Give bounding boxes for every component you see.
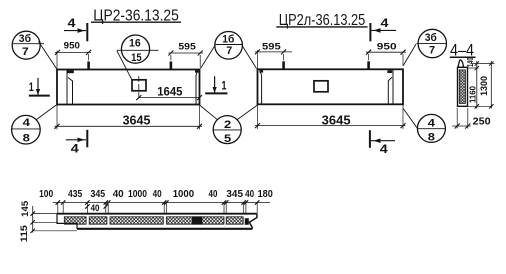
left panel right-end joint lines bbox=[195, 70, 199, 104]
svg-text:3645: 3645 bbox=[322, 114, 351, 128]
left panel left-end joint lines bbox=[67, 70, 74, 105]
svg-text:8: 8 bbox=[428, 132, 435, 144]
callout circle 2/5 bottom-center bbox=[200, 105, 258, 145]
section mark 4 top-right bbox=[370, 16, 396, 41]
right panel lifting loop 2 bbox=[367, 61, 370, 69]
dim 950 right panel bbox=[366, 40, 406, 66]
callout circle 4/8 bottom-left bbox=[12, 105, 57, 145]
bottom bar black joint bbox=[192, 216, 202, 224]
svg-text:2: 2 bbox=[224, 119, 231, 131]
svg-text:1: 1 bbox=[222, 79, 227, 93]
svg-text:40: 40 bbox=[113, 189, 124, 200]
section 4-4 body bbox=[458, 60, 468, 106]
svg-text:5: 5 bbox=[224, 133, 231, 145]
svg-text:40: 40 bbox=[153, 189, 162, 200]
svg-text:345: 345 bbox=[226, 189, 243, 200]
bottom bar hatch strips bbox=[64, 217, 243, 224]
bottom sub dim 40 bbox=[85, 202, 108, 213]
svg-text:1: 1 bbox=[29, 80, 34, 94]
right panel left-end joint lines bbox=[259, 70, 263, 104]
svg-text:950: 950 bbox=[64, 40, 80, 51]
bottom bar outline bbox=[57, 213, 257, 229]
svg-text:4: 4 bbox=[381, 16, 389, 30]
title panel CP2l-36.13.25 bbox=[276, 12, 367, 29]
section mark 1 left bbox=[29, 78, 50, 96]
svg-text:1б: 1б bbox=[222, 34, 234, 46]
bottom dim labels row bbox=[39, 189, 273, 200]
svg-text:1160: 1160 bbox=[467, 86, 477, 103]
svg-text:8: 8 bbox=[23, 133, 30, 145]
svg-text:7: 7 bbox=[226, 45, 232, 57]
title panel CP2-36.13.25 bbox=[91, 7, 181, 24]
svg-text:435: 435 bbox=[68, 189, 82, 200]
callout circle 1b/7 bbox=[201, 32, 257, 69]
right panel right-end joint lines bbox=[387, 69, 393, 104]
section mark 4 bottom-right bbox=[370, 130, 395, 156]
svg-text:250: 250 bbox=[473, 117, 491, 128]
left panel outline bbox=[57, 70, 200, 105]
callout circle 3b/7 top-left bbox=[12, 31, 56, 68]
svg-text:4: 4 bbox=[380, 142, 388, 156]
section mark 1 right bbox=[205, 76, 227, 93]
svg-text:1000: 1000 bbox=[128, 189, 147, 200]
svg-text:100: 100 bbox=[39, 189, 53, 200]
svg-text:595: 595 bbox=[262, 40, 281, 51]
svg-text:7: 7 bbox=[429, 44, 435, 56]
svg-text:4: 4 bbox=[23, 117, 31, 129]
dim 1645 bbox=[136, 84, 202, 100]
dim 3645 right panel bbox=[255, 104, 406, 129]
bottom dim tick extension lines bbox=[58, 203, 257, 214]
svg-text:3645: 3645 bbox=[123, 113, 151, 127]
svg-text:4: 4 bbox=[71, 142, 79, 156]
svg-text:595: 595 bbox=[178, 40, 195, 51]
svg-text:145: 145 bbox=[19, 201, 30, 217]
callout circle 3b/7 right bbox=[403, 29, 447, 65]
svg-text:3б: 3б bbox=[425, 32, 437, 44]
svg-text:1300: 1300 bbox=[479, 76, 489, 96]
svg-text:115: 115 bbox=[18, 225, 29, 242]
svg-text:4: 4 bbox=[428, 117, 436, 129]
dim 595 right panel bbox=[255, 40, 292, 69]
left panel lifting loop 1 bbox=[87, 62, 90, 70]
svg-text:1645: 1645 bbox=[157, 84, 183, 98]
left panel hole rect bbox=[132, 76, 146, 100]
svg-text:40: 40 bbox=[91, 202, 100, 213]
bottom bar end blob bbox=[245, 218, 249, 225]
callout circle 16/15 bbox=[117, 35, 159, 80]
section mark 4 top-left bbox=[64, 16, 87, 42]
callout circle 4/8 bottom-right bbox=[403, 109, 445, 144]
svg-text:345: 345 bbox=[91, 189, 106, 200]
bottom left thickness dims bbox=[18, 201, 77, 242]
heading 4-4 bbox=[450, 41, 476, 59]
right panel hole rect bbox=[314, 81, 328, 92]
svg-text:40: 40 bbox=[245, 189, 254, 200]
svg-text:40: 40 bbox=[209, 189, 218, 200]
dim 595 left panel bbox=[168, 40, 203, 67]
svg-text:4: 4 bbox=[68, 16, 76, 30]
bottom section top dim line bbox=[53, 202, 270, 204]
svg-text:3б: 3б bbox=[19, 33, 31, 45]
left panel lifting loop 2 bbox=[170, 62, 173, 70]
section mark 4 bottom-left bbox=[66, 130, 88, 156]
section 4-4 right dims bbox=[465, 57, 495, 108]
section 4-4 dim 250 bbox=[452, 108, 491, 129]
right panel outline bbox=[258, 69, 404, 104]
svg-text:1000: 1000 bbox=[173, 189, 195, 200]
dim 3645 left panel bbox=[55, 105, 203, 130]
dim 950 left panel bbox=[55, 40, 91, 70]
svg-text:16: 16 bbox=[129, 37, 141, 49]
svg-text:7: 7 bbox=[22, 46, 29, 58]
right panel lifting loop 1 bbox=[282, 61, 285, 69]
svg-text:950: 950 bbox=[377, 40, 397, 51]
svg-text:15: 15 bbox=[131, 52, 142, 64]
svg-text:140: 140 bbox=[465, 57, 475, 67]
svg-text:180: 180 bbox=[258, 189, 273, 200]
bottom dim slash ticks bbox=[56, 200, 260, 204]
